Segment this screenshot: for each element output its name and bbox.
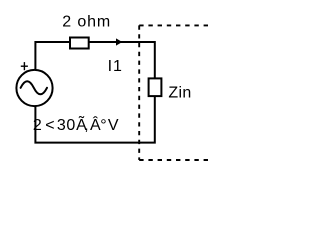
label I1 <box>108 58 123 75</box>
dashed box left edge <box>138 25 140 160</box>
svg-text:I1: I1 <box>108 58 123 75</box>
voltage source sine wave <box>21 81 47 94</box>
svg-text:2 ohm: 2 ohm <box>62 14 111 31</box>
label Zin <box>168 85 191 102</box>
label source value 2<30°V (mojibake) <box>33 114 119 134</box>
svg-text:Zin: Zin <box>168 85 191 102</box>
plus sign polarity mark <box>21 62 28 70</box>
resistor Zin (vertical) <box>149 78 162 96</box>
wire bottom run: Zin bottom, down, left, up to source bottom <box>35 96 154 143</box>
current arrow I1 head <box>116 38 122 45</box>
label 2 ohm <box>62 14 111 31</box>
resistor R1 (2 ohm) <box>70 38 89 49</box>
dashed box top edge <box>139 24 208 26</box>
svg-text:2<30Ã‚Â°V: 2<30Ã‚Â°V <box>33 114 119 134</box>
voltage source V1 circle <box>16 70 52 106</box>
dashed box bottom edge <box>139 159 208 161</box>
wire top run: source top, up and right through R1 to right branch <box>35 42 154 78</box>
